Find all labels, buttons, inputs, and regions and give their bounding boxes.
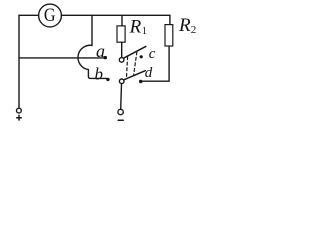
svg-text:1: 1 (142, 26, 147, 37)
svg-text:R: R (129, 16, 142, 37)
svg-text:d: d (145, 65, 153, 81)
svg-text:c: c (149, 46, 156, 62)
svg-text:R: R (178, 15, 191, 36)
svg-text:b: b (95, 64, 104, 83)
svg-text:G: G (44, 4, 56, 26)
svg-text:a: a (96, 41, 105, 61)
svg-text:2: 2 (191, 24, 197, 36)
